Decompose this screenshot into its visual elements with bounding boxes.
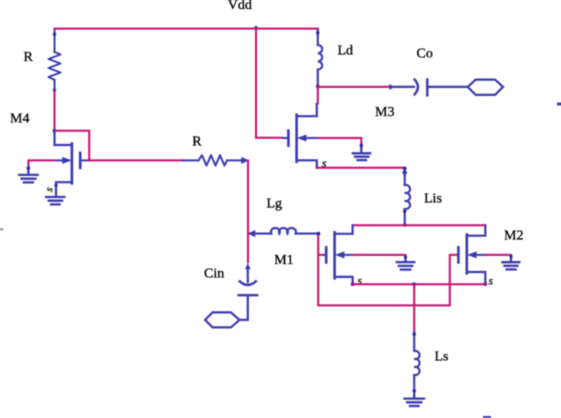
capacitor Cin xyxy=(239,267,258,320)
ground at M4 bulk xyxy=(19,167,38,183)
svg-text:R: R xyxy=(192,135,202,150)
wire M1 bulk to ground xyxy=(354,255,406,257)
ground at Ls xyxy=(405,396,425,407)
inductor Ls xyxy=(413,332,420,396)
arrow on wire above Cin xyxy=(245,263,251,269)
capacitor Co xyxy=(395,79,468,95)
svg-text:M4: M4 xyxy=(10,112,29,127)
wire Ld bottom node to M3 drain xyxy=(317,87,319,104)
ground at M1 bulk xyxy=(397,255,415,269)
transistor M4 (mirrored NMOS) xyxy=(54,131,89,197)
wire M1 gate lead xyxy=(318,254,323,256)
inductor Ld xyxy=(316,30,322,89)
port P1 hexagon at input xyxy=(205,312,239,327)
wire gate bus Lg node down and across to M2 gate xyxy=(318,234,457,306)
wire drain rail M1-M2 xyxy=(353,224,486,226)
arrow on wire into Co xyxy=(389,84,395,90)
svg-text:s: s xyxy=(358,275,363,287)
wire M4 bulk to ground xyxy=(28,160,53,166)
wire Vdd rail to M3 gate xyxy=(256,29,283,138)
svg-text:Cin: Cin xyxy=(204,267,224,282)
resistor R2 xyxy=(183,155,248,165)
node junction source rail to Ls xyxy=(412,282,416,286)
wire Vdd rail xyxy=(55,29,318,34)
wire M3 source to Lis xyxy=(317,167,405,169)
port P2 hexagon at output xyxy=(468,80,503,95)
svg-text:s: s xyxy=(489,275,494,287)
ground at M3 bulk xyxy=(353,144,370,160)
svg-text:M3: M3 xyxy=(375,105,394,120)
wire source rail down to Ls xyxy=(413,284,415,332)
svg-text:s: s xyxy=(43,186,56,193)
wire output node to Co xyxy=(318,86,389,88)
inductor Lg xyxy=(249,228,320,237)
svg-text:Lis: Lis xyxy=(424,192,442,207)
ground at M2 bulk xyxy=(502,255,519,270)
ground at M4 source xyxy=(46,197,64,204)
inductor Lis xyxy=(402,167,410,225)
transistor M2 (NMOS) xyxy=(458,225,488,286)
node junction dot on Vdd rail xyxy=(254,26,258,30)
svg-text:M2: M2 xyxy=(504,229,523,244)
svg-text:Vdd: Vdd xyxy=(228,0,252,13)
svg-text:Lg: Lg xyxy=(267,197,283,212)
svg-text:Ld: Ld xyxy=(338,43,354,58)
wire M2 bulk to ground xyxy=(486,255,511,256)
transistor M3 (NMOS) xyxy=(283,104,319,168)
stray mark left edge xyxy=(0,228,3,230)
wire source rail M1-M2 xyxy=(353,283,486,285)
wire M3 bulk to ground xyxy=(319,138,361,145)
wire M4 gate node to resistor R2 xyxy=(89,159,184,161)
svg-text:R: R xyxy=(24,50,34,65)
svg-text:Ls: Ls xyxy=(435,350,449,365)
stray mark bottom edge xyxy=(484,416,490,418)
wire M4 drain-to-gate jog xyxy=(55,131,90,161)
resistor R1 xyxy=(49,30,61,92)
svg-text:Co: Co xyxy=(417,47,433,62)
node M4 drain junction dot xyxy=(53,129,57,133)
svg-text:M1: M1 xyxy=(274,253,293,268)
wire bias vertical from R2 down to Cin xyxy=(247,160,249,262)
stray mark right edge xyxy=(559,103,561,106)
transistor M1 (NMOS) xyxy=(324,225,355,286)
wire R1 bottom to M4 drain xyxy=(54,91,56,131)
node junction Lis to drain rail xyxy=(403,223,407,227)
